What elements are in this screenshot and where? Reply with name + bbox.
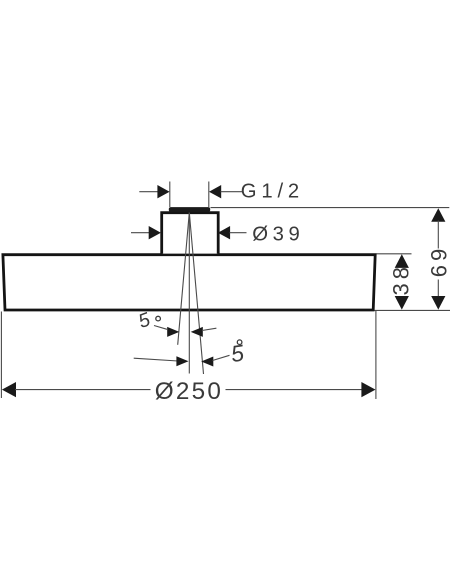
connector body <box>162 213 219 254</box>
69 top extension line <box>211 207 450 209</box>
5deg upper arrow tail <box>202 328 216 330</box>
5deg upper leader <box>154 326 167 330</box>
O39 dimension line left <box>131 232 152 234</box>
5deg lower arrow (points right at centre line) <box>176 356 188 366</box>
G1/2 arrow left <box>157 185 169 198</box>
38 arrow top <box>395 254 409 268</box>
5deg upper arrow (points right at left spray line) <box>167 327 179 337</box>
spray centre line <box>188 213 190 374</box>
O39 arrow left <box>149 226 161 239</box>
5deg upper arrow (points left at centre line) <box>191 327 203 337</box>
O250 extension line right <box>375 311 377 399</box>
69 arrow top <box>431 208 445 222</box>
connector thread cap <box>169 207 210 212</box>
G1/2 dimension line right <box>221 191 243 193</box>
svg-text:Ø39: Ø39 <box>252 223 304 245</box>
svg-text:38: 38 <box>388 263 413 295</box>
O250 dimension line left <box>15 389 151 391</box>
5deg lower tail left <box>134 358 178 361</box>
spray angle line left <box>178 213 190 345</box>
69 dimension line lower <box>437 280 439 298</box>
svg-text:Ø250: Ø250 <box>155 378 223 405</box>
69 dimension line upper <box>437 221 439 249</box>
svg-text:69: 69 <box>426 245 451 277</box>
69 arrow bottom <box>431 296 445 310</box>
5deg lower arrow (points left at right spray line) <box>201 357 213 367</box>
O39 arrow right <box>218 226 230 239</box>
O250 arrow right <box>361 382 375 397</box>
spray angle line right <box>189 213 203 375</box>
G1/2 extension line right <box>208 182 210 208</box>
G1/2 extension line left <box>169 182 171 208</box>
O250 extension line left <box>0 312 2 399</box>
38 top extension line <box>377 253 412 255</box>
O250 arrow left <box>2 382 16 397</box>
38/69 bottom extension line <box>375 309 451 311</box>
5deg lower tail right <box>213 355 230 360</box>
G1/2 dimension line left <box>139 191 160 193</box>
shower head disc <box>3 255 375 310</box>
5deg lower label degree ring <box>237 340 242 345</box>
O39 dimension line right <box>230 232 247 234</box>
svg-text:G1/2: G1/2 <box>241 181 304 203</box>
38 arrow bottom <box>395 296 409 310</box>
O250 dimension line right <box>226 389 363 391</box>
G1/2 arrow right <box>209 185 221 198</box>
5deg upper label degree ring <box>156 316 161 321</box>
